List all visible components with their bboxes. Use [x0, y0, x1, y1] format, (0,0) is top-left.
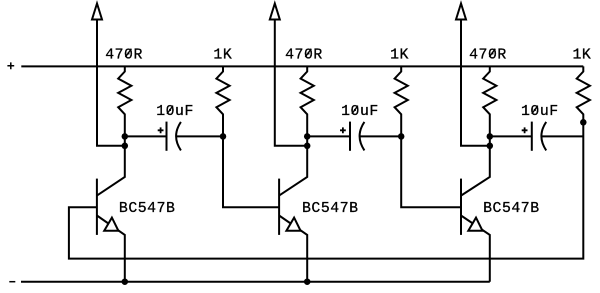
resistor R6 1K	[577, 66, 590, 122]
power arrow PWR2	[270, 4, 307, 146]
wire -rail	[21, 281, 490, 283]
svg-text:1K: 1K	[213, 47, 232, 63]
capacitor C3 10uF	[490, 122, 584, 151]
wire collector drop Q3	[461, 136, 490, 195]
resistor R1 470R	[118, 66, 131, 136]
node dot r6	[580, 119, 587, 126]
transistor Q1 BC547B	[97, 179, 125, 282]
slash zero C1	[167, 106, 173, 114]
svg-text:BC547B: BC547B	[483, 201, 540, 217]
svg-text:1K: 1K	[390, 47, 409, 63]
node dot collector3 a	[487, 133, 494, 140]
svg-text:BC547B: BC547B	[302, 201, 359, 217]
slash zero R1	[125, 49, 131, 57]
slash zero R3	[305, 49, 311, 57]
wire base Q1 feedback	[69, 122, 583, 259]
svg-text:470R: 470R	[469, 47, 507, 63]
slash zero C2	[352, 106, 358, 114]
resistor R5 470R	[483, 66, 496, 136]
resistor R4 1K	[395, 66, 408, 136]
power arrow PWR3	[456, 4, 490, 146]
svg-text:470R: 470R	[105, 47, 143, 63]
resistor R3 470R	[301, 66, 314, 136]
capacitor C1 10uF	[125, 122, 223, 151]
svg-text:10uF: 10uF	[521, 104, 559, 120]
svg-text:10uF: 10uF	[156, 104, 194, 120]
wire +rail	[21, 65, 583, 67]
resistor R2 1K	[216, 66, 229, 136]
svg-text:470R: 470R	[285, 47, 323, 63]
power arrow PWR1	[92, 4, 125, 146]
svg-text:BC547B: BC547B	[119, 201, 176, 217]
minus label	[9, 281, 15, 283]
slash zero C3	[532, 106, 538, 114]
node dot collector3 b	[487, 143, 494, 150]
capacitor C2 10uF	[307, 122, 401, 151]
wire base Q3	[401, 136, 461, 207]
node dot collector1 a	[122, 133, 129, 140]
wire collector drop Q2	[279, 136, 307, 195]
svg-text:10uF: 10uF	[341, 104, 379, 120]
wire collector drop Q1	[97, 136, 125, 195]
svg-text:1K: 1K	[573, 47, 592, 63]
slash zero R5	[489, 49, 495, 57]
transistor Q3 BC547B	[461, 179, 490, 282]
plus label	[7, 62, 14, 69]
wire base Q2	[223, 136, 279, 207]
node dot collector2 a	[304, 133, 311, 140]
node dot emitter2	[304, 278, 311, 285]
node dot emitter1	[122, 278, 129, 285]
node dot base2	[220, 133, 227, 140]
node dot collector1 b	[122, 143, 129, 150]
node dot base3	[398, 133, 405, 140]
node dot collector2 b	[304, 143, 311, 150]
transistor Q2 BC547B	[279, 179, 307, 282]
